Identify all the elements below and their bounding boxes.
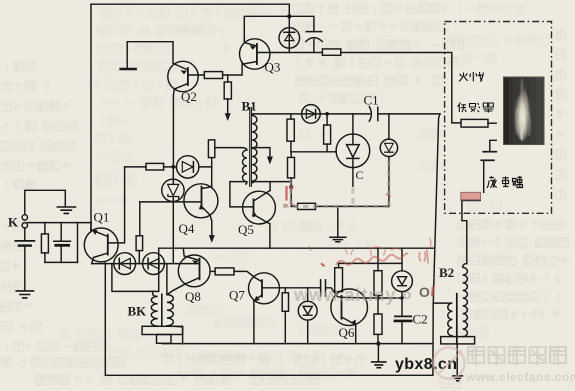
battery rail (left): [45, 261, 78, 263]
transistor Q1: [84, 228, 118, 262]
svg-text:B2: B2: [439, 265, 454, 280]
wire: top-right corner drop to node: [288, 4, 290, 16]
ground (battery): [16, 291, 33, 298]
ground (below box, R chain): [377, 344, 379, 362]
thyristor C (circled SCR): [352, 114, 354, 134]
svg-text:C: C: [356, 168, 364, 182]
svg-text:Q5: Q5: [238, 222, 254, 237]
diode D (circled on rail, pointing right): [302, 105, 321, 124]
svg-text:BK: BK: [128, 304, 148, 319]
wire: resistor side to B1 left winding: [215, 147, 241, 149]
wire: highlighted resistor to B2 secondary: [462, 201, 467, 264]
battery E: [24, 228, 26, 240]
wire: Q7 base line to right: [262, 287, 321, 289]
BK core: [161, 294, 163, 325]
lower box bottom rail: [162, 343, 433, 345]
transistor Q7: [249, 273, 280, 304]
svg-text:C1: C1: [364, 93, 379, 108]
wire: node to capacitor branch: [289, 16, 314, 31]
resistor (battery shunt): [44, 223, 46, 234]
node dot row: [171, 165, 175, 169]
wire+arrow: B1 tap to open arrow: [252, 148, 270, 156]
transistor Q5: [243, 191, 276, 224]
wire: Q2 emitter down: [172, 89, 175, 167]
wire: BK right winding bottom to box bottom rail: [167, 326, 183, 344]
capacitor C2: [401, 298, 403, 316]
svg-text:Q2: Q2: [181, 89, 197, 104]
capacitor (battery shunt): [60, 223, 62, 241]
wire: top distribution rail: [253, 113, 369, 115]
wire: diode pair row feed from box edge: [112, 264, 159, 292]
svg-text:Q6: Q6: [339, 325, 355, 340]
ground (frame, upper-left): [25, 190, 66, 214]
capacitor (top plate straight, bottom plate curved): [306, 31, 321, 33]
resistor (Q8 to Q7): [210, 270, 215, 272]
transformer B1 primary (left) winding: [241, 148, 247, 184]
label chuan-gan-qi (sensor): [458, 103, 494, 113]
resistor (vertical, Q4 bias): [139, 202, 141, 236]
wire: lower return with resistor: [291, 205, 297, 207]
lower section box: top rail: [159, 247, 434, 249]
transistor Q6: [331, 289, 368, 326]
spark gap (discharge): [490, 140, 497, 151]
wire: node to Q3 collector branch: [244, 16, 289, 42]
node junction dot top-right: [287, 14, 291, 18]
resistor (left chain lower): [290, 152, 292, 158]
resistor (left chain upper): [290, 114, 292, 119]
sensor box: [445, 22, 552, 214]
wire: BK right winding top lead up to row: [166, 264, 168, 295]
wire: B1 secondary bottom rail: [253, 182, 291, 187]
wire: outer frame left edge: [90, 4, 92, 231]
transformer B1 core: [250, 108, 252, 187]
transformer BK left winding: [151, 291, 157, 326]
wire: Q4 base line: [140, 201, 202, 203]
svg-text:www.elecfans.com: www.elecfans.com: [465, 370, 575, 384]
svg-text:C2: C2: [413, 312, 428, 327]
wire: capacitor bottom lead: [313, 40, 315, 53]
bottom rail: [105, 374, 433, 376]
wire: gate line: [291, 151, 336, 153]
ground (B2): [453, 376, 463, 381]
resistor (lower vertical): [377, 298, 379, 314]
wire: bias top link: [339, 262, 402, 264]
lower box left edge: [158, 248, 160, 291]
transistor Q3: [240, 39, 270, 69]
capacitor C1 (series in rail): [369, 107, 371, 122]
node dot: [289, 185, 293, 189]
resistor (series, flame line): [322, 49, 340, 55]
wire: outer frame top rail: [91, 3, 289, 5]
diode (circled, pointing left) 2: [143, 253, 165, 275]
wire: Q2 collector up and left: [127, 42, 173, 68]
svg-text:Q8: Q8: [185, 289, 201, 304]
wire: row-left corner down to Q1 base: [108, 167, 125, 243]
resistor (row, left): [146, 163, 164, 170]
label huo-yan (flame): [459, 72, 483, 82]
diode (circled, cathode down) lower-mid: [307, 288, 309, 302]
wire: long drop to B2 / lower box right edge: [433, 114, 440, 375]
BK bottom plate: [142, 326, 183, 334]
wire: plate to ground: [456, 344, 458, 376]
flame photo: [504, 77, 545, 145]
svg-text:O: O: [419, 284, 430, 300]
wire: Q3 base/emitter row to sensing line: [257, 52, 323, 54]
resistor (on Q7 base line): [284, 288, 286, 293]
transformer B1 secondary (right) winding: [252, 114, 257, 183]
node dot on rail: [325, 112, 329, 116]
transistor Q2: [168, 61, 198, 91]
wire: Q2 base to resistor: [188, 74, 204, 76]
diode D (circled, cathode bar up) beside Q3: [279, 28, 300, 49]
transistor Q8: [178, 255, 210, 287]
svg-text:Q4: Q4: [179, 221, 195, 236]
svg-text:Q7: Q7: [229, 288, 245, 303]
resistor (right chain from rail node): [326, 114, 328, 125]
diode (circled, right, cathode down): [401, 248, 403, 271]
wire: Q4 emitter open arrow: [210, 215, 212, 236]
ground (mid, under dashed box): [337, 206, 339, 237]
svg-text:www.aitmy: www.aitmy: [293, 285, 396, 305]
wire: resistor to Q3 emitter riser: [223, 62, 243, 75]
svg-text:B1: B1: [242, 99, 257, 114]
diode D1 (circled, pointing right): [177, 156, 199, 178]
diode (circled, right of C1, cathode down): [388, 114, 390, 139]
flame sensor resistor: [461, 119, 488, 127]
wire: K rail branch down: [77, 223, 79, 263]
wire: corner down to Q4 collector: [211, 167, 213, 187]
wire: left drop to bottom rail: [104, 263, 106, 375]
wire: LED through lead: [288, 16, 290, 52]
resistor (middle vertical from top rail): [377, 248, 379, 271]
diode (circled, pointing left) 1: [114, 253, 136, 275]
elecfans logo watermark: [434, 347, 575, 384]
contact bar (electrode) top-left: [121, 68, 136, 71]
resistor (vertical below bias node): [227, 75, 229, 82]
transformer BK right winding: [167, 295, 173, 326]
wire: Q6 collector row: [367, 297, 403, 299]
dash-dot flame sensor box: [445, 22, 552, 214]
B2 bottom plate: [441, 337, 475, 344]
wire: Q2 emitter row: [125, 166, 146, 168]
resistor (Q6 base bias, vertical): [335, 268, 343, 292]
label fang-dian-zui (discharge nozzle): [487, 176, 522, 188]
capacitor (coupling into Q6 base): [320, 280, 322, 296]
wire+arrow: open arrow below resistor: [227, 99, 229, 116]
resistor (Q2 base - bias node): [204, 72, 222, 79]
wire: D1 to corner: [199, 158, 212, 167]
highlighted resistor (pink) at discharge line: [461, 192, 481, 200]
svg-text:Q3: Q3: [265, 60, 281, 75]
svg-text:. o: . o: [395, 286, 411, 302]
red pen artifacts: [284, 186, 434, 297]
svg-text:Q1: Q1: [94, 210, 110, 225]
zener diode (circled) below node: [172, 167, 174, 179]
wire: K to frame: [28, 222, 91, 224]
transformer B2 primary winding: [433, 303, 452, 337]
resistor (vertical, feeds B1 primary top): [208, 140, 214, 158]
wire: B1 primary bottom to Q5 base: [230, 182, 253, 207]
transistor Q4: [184, 184, 218, 218]
dashed gray overlay (pencil box): [283, 158, 389, 206]
B2 core: [456, 294, 458, 344]
svg-text:K: K: [8, 215, 19, 230]
wire: Q1 emitter / diode row: [92, 263, 200, 265]
transformer B2 secondary (tall) winding: [463, 264, 468, 337]
switch K: [22, 215, 27, 220]
wire: to flame sensor: [341, 53, 461, 123]
